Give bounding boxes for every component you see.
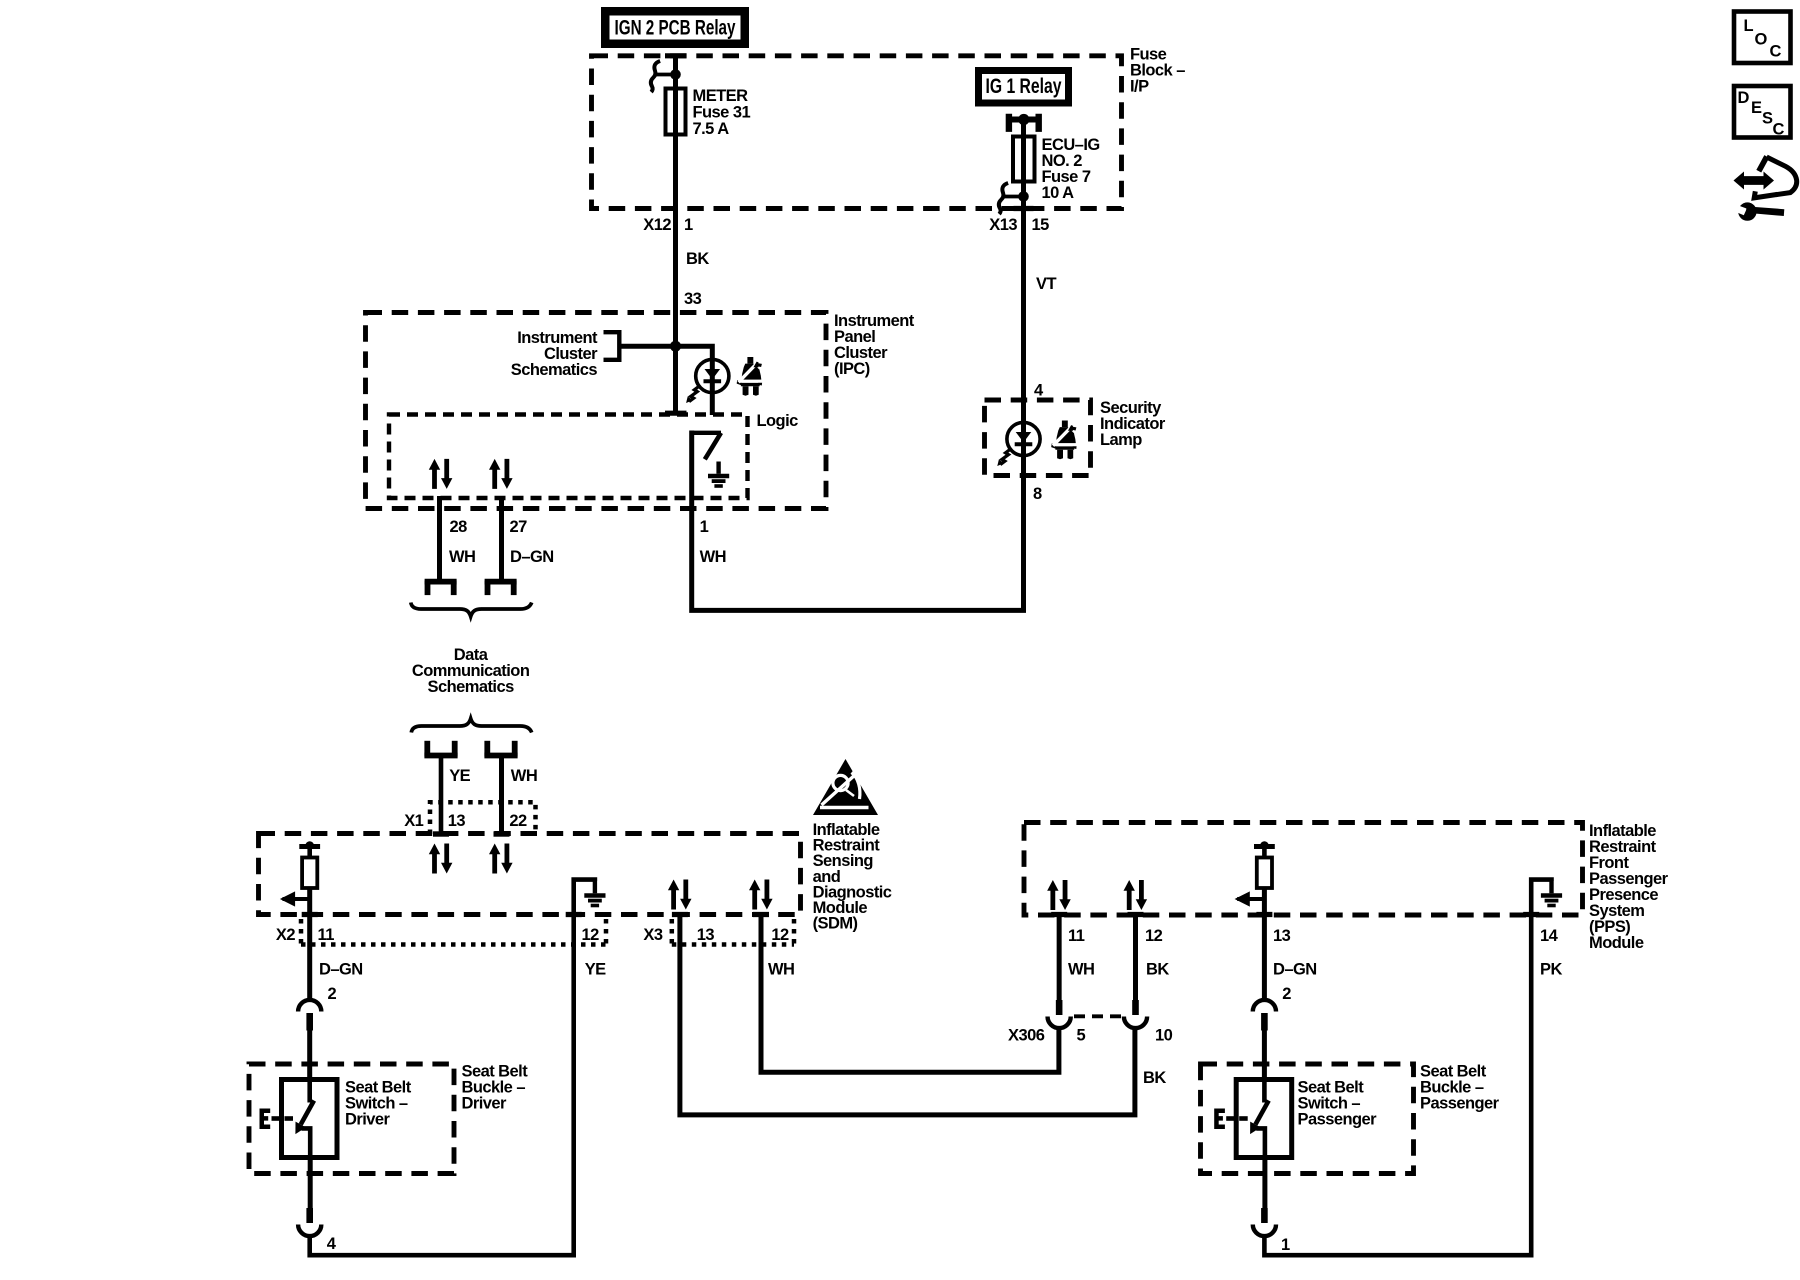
wire WH to X1 [494, 756, 510, 837]
fuse block I/P dashed box [592, 56, 1122, 209]
ground symbol SDM [584, 881, 605, 906]
squib SDM [280, 841, 320, 906]
svg-text:YE: YE [449, 767, 470, 785]
svg-text:10: 10 [1155, 1027, 1173, 1045]
wire label YE [449, 767, 470, 785]
svg-text:Module: Module [1589, 934, 1644, 952]
wire label VT [1036, 275, 1056, 293]
wire label D-GN (driver) [319, 961, 363, 979]
svg-text:Schematics: Schematics [427, 678, 514, 696]
svg-text:Logic: Logic [757, 412, 799, 430]
seat belt icon (security lamp) [1051, 421, 1077, 460]
relay contact on METER fuse wire [651, 61, 681, 92]
svg-text:WH: WH [768, 961, 794, 979]
brace upper [411, 603, 532, 617]
svg-text:Driver: Driver [462, 1095, 508, 1113]
label Instrument Panel Cluster (IPC) [834, 312, 915, 378]
svg-text:Fuse 31: Fuse 31 [693, 104, 751, 122]
warning triangle airbag [813, 759, 878, 815]
svg-text:22: 22 [509, 812, 527, 830]
data arrows pin 27 [489, 459, 513, 489]
wire label D-GN (PPS-13) [1273, 961, 1317, 979]
wire YE to X1 [433, 756, 449, 837]
IG 1 Relay title box [975, 67, 1072, 107]
wire below passenger switch [1262, 1158, 1267, 1209]
svg-text:X13: X13 [989, 216, 1017, 234]
label Security Indicator Lamp [1100, 399, 1166, 449]
svg-text:E: E [1751, 99, 1762, 117]
icon LOC [1734, 12, 1791, 64]
ground PPS and PK wire loop [1264, 880, 1551, 1256]
svg-text:VT: VT [1036, 275, 1056, 293]
data arrows X1-13 (SDM) [429, 844, 453, 874]
wire to driver switch [307, 1030, 312, 1080]
label Data Communication Schematics [412, 646, 530, 696]
node 4 label [327, 1235, 337, 1253]
svg-text:1: 1 [1281, 1236, 1290, 1254]
svg-text:Schematics: Schematics [511, 361, 598, 379]
relay contact on ECU-IG fuse wire [999, 183, 1029, 214]
svg-text:12: 12 [582, 926, 600, 944]
svg-text:S: S [1762, 110, 1773, 128]
inline connector 2 (passenger) [1253, 1000, 1276, 1031]
pin 28 label [450, 518, 468, 536]
svg-text:Passenger: Passenger [1298, 1111, 1378, 1129]
svg-text:13: 13 [1273, 927, 1291, 945]
logic dashed box [389, 415, 748, 499]
connector (YE up) [424, 741, 457, 757]
inline connector 2 (driver) [298, 1000, 321, 1031]
svg-text:WH: WH [700, 548, 726, 566]
pin 14 PPS [1540, 927, 1559, 945]
X306 dashed link [1074, 1014, 1122, 1018]
svg-text:IG 1 Relay: IG 1 Relay [986, 75, 1062, 98]
fuse METER Fuse 31 7.5 A [666, 87, 751, 138]
security indicator lamp dashed box [985, 400, 1091, 476]
wire pin 28 [437, 496, 442, 582]
svg-text:7.5 A: 7.5 A [693, 120, 730, 138]
wire below driver switch [308, 1158, 313, 1209]
pin 11 PPS [1068, 927, 1085, 945]
svg-text:X1: X1 [404, 812, 423, 830]
svg-text:10 A: 10 A [1042, 184, 1075, 202]
wire label BK (below X306-10) [1143, 1069, 1166, 1087]
svg-text:28: 28 [450, 518, 468, 536]
data arrows PPS-11 [1047, 880, 1071, 910]
pin 10 label [1155, 1027, 1173, 1045]
wire D-GN SDM pin 11 [307, 888, 312, 1001]
svg-text:1: 1 [684, 216, 693, 234]
connector X306 pin 5 [1048, 1000, 1071, 1028]
wire label WH (PPS-11) [1068, 961, 1094, 979]
wire to passenger switch [1262, 1030, 1267, 1080]
svg-text:BK: BK [1143, 1069, 1166, 1087]
pin 13 PPS [1273, 927, 1291, 945]
ground (logic) [708, 462, 729, 487]
label Seat Belt Switch - Passenger [1298, 1079, 1378, 1129]
label Instrument Cluster Schematics [511, 329, 598, 379]
PPS dashed box [1024, 823, 1583, 916]
label PPS module [1589, 822, 1669, 952]
LED seat belt indicator (IPC) [686, 359, 729, 403]
label Seat Belt Buckle - Passenger [1420, 1063, 1500, 1113]
seat belt switch driver [260, 1080, 338, 1158]
connector X12 pin 1 [643, 216, 693, 234]
bracket [604, 332, 620, 360]
wire PPS-13 D-GN down [1262, 888, 1267, 1001]
svg-text:IGN 2 PCB Relay: IGN 2 PCB Relay [615, 17, 736, 40]
svg-text:L: L [1744, 17, 1754, 35]
IPC dashed box [366, 313, 827, 509]
svg-text:I/P: I/P [1130, 78, 1149, 96]
svg-text:4: 4 [1034, 382, 1044, 400]
svg-text:13: 13 [697, 926, 715, 944]
data arrows X3-13 (SDM) [668, 880, 692, 910]
wire PPS-11 to X306-5 [1057, 912, 1062, 1000]
wire label WH (pin 1) [700, 548, 726, 566]
svg-text:11: 11 [1068, 927, 1085, 945]
svg-text:15: 15 [1032, 216, 1050, 234]
svg-text:D–GN: D–GN [510, 548, 554, 566]
connector (27) [485, 581, 517, 596]
seat belt buckle passenger dashed box [1201, 1064, 1414, 1174]
svg-text:WH: WH [1068, 961, 1094, 979]
svg-text:WH: WH [449, 548, 475, 566]
wire pin 27 [499, 496, 504, 582]
node 2 (passenger) [1282, 985, 1291, 1003]
svg-text:Lamp: Lamp [1100, 431, 1142, 449]
svg-text:X2: X2 [276, 926, 295, 944]
fuse ECU-IG NO. 2 Fuse 7 10 A [1013, 136, 1100, 202]
svg-text:METER: METER [693, 87, 749, 105]
wire label WH (X3-12) [768, 961, 794, 979]
LED security indicator [997, 422, 1040, 466]
brace lower [411, 719, 531, 733]
svg-text:Driver: Driver [345, 1111, 391, 1129]
label Logic [757, 412, 799, 430]
svg-text:1: 1 [700, 518, 709, 536]
svg-text:BK: BK [1146, 961, 1169, 979]
svg-text:PK: PK [1540, 961, 1562, 979]
svg-text:X3: X3 [643, 926, 662, 944]
data arrows PPS-12 [1124, 880, 1148, 910]
icon navigation arrows and wrench [1734, 157, 1797, 221]
svg-text:12: 12 [1145, 927, 1163, 945]
relay terminal connector under IG 1 Relay [1009, 114, 1039, 132]
svg-text:WH: WH [511, 767, 537, 785]
pin 8 [1033, 485, 1042, 503]
label SDM [813, 821, 892, 933]
svg-text:X12: X12 [643, 216, 671, 234]
ground symbol PPS [1541, 881, 1562, 906]
wire BK from fuse block to IPC [665, 56, 687, 415]
svg-text:2: 2 [328, 985, 337, 1003]
data arrows X1-22 (SDM) [489, 844, 513, 874]
svg-text:D: D [1738, 89, 1750, 107]
inline connector 4 (driver) [298, 1208, 321, 1236]
svg-text:11: 11 [318, 926, 335, 944]
node 33 [684, 290, 702, 308]
svg-text:C: C [1770, 43, 1782, 61]
label Seat Belt Switch - Driver [345, 1079, 412, 1129]
svg-text:8: 8 [1033, 485, 1042, 503]
label Fuse Block - I/P [1130, 46, 1185, 96]
seat belt switch passenger [1214, 1080, 1292, 1158]
SDM dashed box [259, 834, 801, 915]
pin 4 [1034, 382, 1044, 400]
connector X3 dotted box [643, 919, 794, 947]
ground SDM and YE wire loop [310, 880, 595, 1256]
svg-text:Passenger: Passenger [1420, 1095, 1500, 1113]
node 2 (driver) [328, 985, 337, 1003]
svg-text:2: 2 [1282, 985, 1291, 1003]
pin 12 PPS [1145, 927, 1163, 945]
svg-text:(SDM): (SDM) [813, 915, 858, 933]
svg-text:O: O [1755, 31, 1768, 49]
wire label BK [686, 250, 709, 268]
junction node [670, 341, 681, 352]
IGN 2 PCB Relay title box [601, 7, 749, 48]
inline connector 1 (passenger) [1253, 1208, 1276, 1236]
svg-text:4: 4 [327, 1235, 337, 1253]
switch in logic box [692, 433, 721, 460]
connector (28) [425, 581, 457, 596]
wire label D-GN (27) [510, 548, 554, 566]
wire X3-12 WH to X306-5 [761, 912, 1059, 1072]
pin 27 label [510, 518, 528, 536]
data arrows pin 28 [429, 459, 453, 489]
wire from bracket to LED [619, 346, 712, 415]
svg-text:YE: YE [585, 961, 606, 979]
wire label YE [585, 961, 606, 979]
wire label WH [511, 767, 537, 785]
wire X3-13 to X306-10 [680, 912, 1135, 1115]
data arrows X3-12 (SDM) [749, 880, 773, 910]
svg-text:27: 27 [510, 518, 528, 536]
wire label WH (28) [449, 548, 475, 566]
svg-text:D–GN: D–GN [319, 961, 363, 979]
svg-text:BK: BK [686, 250, 709, 268]
svg-text:D–GN: D–GN [1273, 961, 1317, 979]
wire PPS-12 to X306-10 [1133, 912, 1138, 1000]
wire VT from IG1 relay through security lamp to IPC logic [692, 120, 1024, 611]
label Seat Belt Buckle - Driver [462, 1063, 529, 1113]
svg-text:33: 33 [684, 290, 702, 308]
svg-text:14: 14 [1540, 927, 1559, 945]
connector X1 dotted box [404, 802, 535, 834]
connector X13 pin 15 [989, 216, 1049, 234]
connector X306 pin 10 [1124, 1000, 1147, 1028]
svg-text:X306: X306 [1008, 1027, 1045, 1045]
svg-text:13: 13 [448, 812, 466, 830]
seat belt buckle driver dashed box [249, 1064, 454, 1174]
svg-text:5: 5 [1077, 1027, 1086, 1045]
label X306 [1008, 1027, 1045, 1045]
pin 1 label [700, 518, 709, 536]
seat belt icon (IPC) [737, 357, 763, 396]
wire label PK (PPS-14) [1540, 961, 1562, 979]
squib PPS [1235, 841, 1275, 906]
wire label BK (PPS-12) [1146, 961, 1169, 979]
connector X2 dotted box [276, 919, 606, 947]
node 1 label [1281, 1236, 1290, 1254]
icon DESC [1734, 86, 1791, 139]
svg-text:C: C [1773, 121, 1785, 139]
svg-text:12: 12 [771, 926, 789, 944]
pin 5 label [1077, 1027, 1086, 1045]
svg-text:(IPC): (IPC) [834, 360, 870, 378]
connector (WH up) [484, 741, 517, 757]
